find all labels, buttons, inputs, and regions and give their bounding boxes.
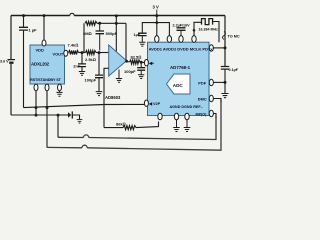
wire C2 to ground <box>81 67 83 72</box>
wire supply into opamp <box>115 23 117 51</box>
crystal Y1 16.384MHz <box>202 19 213 25</box>
wire node B down <box>98 53 100 75</box>
svg-text:3 V: 3 V <box>153 5 159 10</box>
wire MPO to bus1 <box>213 114 216 119</box>
capacitor C4 500pF <box>96 31 105 34</box>
wire U1 pin2 down <box>46 91 48 147</box>
IC U3 body <box>148 42 210 115</box>
node rail-opamp supply <box>115 14 118 17</box>
svg-text:2MΩ: 2MΩ <box>83 31 92 36</box>
ground C5 <box>139 42 145 46</box>
svg-text:VDD: VDD <box>36 47 45 52</box>
pin U3 VINP left <box>144 60 148 66</box>
wire feedback top <box>97 22 126 24</box>
svg-text:DMC: DMC <box>198 96 207 101</box>
pin U1 bottom 2 <box>45 84 49 91</box>
wire C5 to ground <box>141 36 143 42</box>
capacitor C2 2nF <box>78 64 86 67</box>
pin U3 REFN bottom <box>158 113 162 120</box>
svg-text:2.5kΩ: 2.5kΩ <box>85 57 96 62</box>
node feedback-C4 <box>98 22 101 25</box>
svg-text:ADC: ADC <box>173 83 184 88</box>
wire AVDD supply segment <box>142 23 169 36</box>
pin U3 MCLK <box>192 36 196 43</box>
pin U3 PDF right <box>209 79 213 85</box>
wire C8 stub <box>180 30 182 36</box>
wire VOUT to R1 <box>67 52 70 54</box>
capacitor C6 100pF <box>137 68 145 71</box>
node pin1-L2 <box>35 114 38 117</box>
svg-text:16.384 MHz: 16.384 MHz <box>199 27 219 31</box>
wire node A down <box>81 53 83 64</box>
wire left rail upper <box>10 16 12 60</box>
capacitor C5 1uF <box>138 33 147 35</box>
capacitor C8 2.2uF <box>177 28 186 31</box>
svg-text:3.6 V: 3.6 V <box>0 59 9 63</box>
wire rail to C1 <box>23 16 25 27</box>
wire DMC to bus2 <box>213 99 221 103</box>
wire crystal right into U3 <box>213 22 219 43</box>
pin U3 DMC right <box>209 95 213 101</box>
wire bus1 <box>58 136 84 138</box>
wire to R5 <box>104 127 123 129</box>
wire opamp output <box>126 60 130 63</box>
ground U2 vminus <box>118 70 120 79</box>
node rail-C1 <box>22 14 25 17</box>
capacitor C9 <box>221 67 229 70</box>
svg-text:RST/STANDBY ST: RST/STANDBY ST <box>30 78 62 82</box>
wire U1 pin3 down <box>59 91 61 92</box>
resistor R5 86k <box>123 126 136 130</box>
svg-text:MP(O): MP(O) <box>196 112 208 116</box>
svg-text:ADXL202: ADXL202 <box>31 62 50 67</box>
wire R2 to opamp <box>96 52 109 54</box>
wire C3 to ground <box>98 78 100 92</box>
ground C6 <box>138 75 144 79</box>
ground C2 <box>79 72 85 76</box>
svg-text:AD7768-1: AD7768-1 <box>170 65 191 70</box>
resistor R3 2M <box>85 21 97 25</box>
node supply-feedback <box>115 22 118 25</box>
svg-text:TO MC: TO MC <box>228 34 240 38</box>
capacitor C3 100pF <box>95 75 103 78</box>
wire C6 stub <box>140 62 142 67</box>
wire line L1 to U3 VINN <box>24 104 145 107</box>
svg-text:PDF: PDF <box>198 80 206 85</box>
wire L2 down to bus1 <box>57 115 59 137</box>
svg-text:86kΩ: 86kΩ <box>116 121 126 126</box>
wire rail to feedback top <box>115 16 117 24</box>
break mark TO MC <box>223 32 226 40</box>
pin U3 PDTx right <box>209 45 213 51</box>
pin U3 AVDD2 <box>167 36 171 43</box>
svg-text:100pF: 100pF <box>124 69 136 74</box>
pin U3 VINN left <box>144 100 148 106</box>
wire C1 down to line L1 <box>23 30 25 108</box>
wire line L2 <box>11 114 69 116</box>
pin U1 bottom 1 <box>34 84 38 91</box>
svg-text:100pF: 100pF <box>85 78 97 83</box>
wire L2 after C10 <box>73 115 80 119</box>
wire feedback left vertical <box>83 23 85 52</box>
wire C9 down <box>224 69 226 93</box>
wire R4 to U3 <box>140 61 145 64</box>
svg-text:AVDD1 AVDD2 DVDD MCLK PDTx: AVDD1 AVDD2 DVDD MCLK PDTx <box>149 46 214 51</box>
wire PDF to node <box>213 81 225 83</box>
node AVDD segment tap <box>155 21 158 24</box>
svg-text:0.1µF: 0.1µF <box>229 68 239 72</box>
wire R5 to U3 bottom pin <box>136 122 159 128</box>
resistor R2 2.5k <box>86 51 97 55</box>
wire PDTx to rail <box>213 47 225 49</box>
wire R1 to R2 <box>79 52 86 54</box>
wire top supply rail <box>11 15 70 17</box>
wire C6 to ground <box>140 70 142 74</box>
ground U3 AGND <box>176 120 178 127</box>
pin U1 VOUT right <box>64 50 68 56</box>
svg-text:82.5Ω: 82.5Ω <box>131 54 142 59</box>
svg-text:2nF: 2nF <box>73 64 81 69</box>
resistor R1 7.4k <box>69 51 79 55</box>
wire C4 stub up <box>99 23 101 30</box>
svg-text:◀+: ◀+ <box>148 62 155 66</box>
capacitor C10 series <box>68 112 71 117</box>
battery BT1 3.6V <box>8 59 16 61</box>
wire bus2 <box>47 146 82 148</box>
pin U1 bottom 3 <box>58 84 62 91</box>
wire left rail lower <box>10 64 12 115</box>
ground L2 end <box>77 120 83 123</box>
pin U3 AVDD1 <box>155 36 159 43</box>
wire right rail down <box>224 16 226 67</box>
op-amp U2 triangle <box>109 45 127 76</box>
IC U1 body <box>30 45 65 84</box>
wire rail to U1 VDD <box>43 16 45 42</box>
svg-text:VOUT: VOUT <box>53 52 64 57</box>
node B inv input <box>98 51 101 54</box>
ground C3 <box>96 92 103 96</box>
node crystal <box>193 29 196 32</box>
wire opamp noninv input <box>104 67 109 69</box>
wire feedback down to output <box>125 23 127 60</box>
ADC block inside U3 <box>167 74 191 94</box>
ground U1 pin3 <box>56 92 62 96</box>
svg-text:1µF: 1µF <box>134 33 141 37</box>
node rail-U1 <box>43 14 46 17</box>
pin U3 DVDD <box>179 36 183 43</box>
svg-text:7.4kΩ: 7.4kΩ <box>68 42 79 47</box>
pin U3 AGND bottom <box>174 113 178 120</box>
wire rail down to AVDD1 <box>156 16 158 36</box>
pin U3 MPO right <box>209 110 213 116</box>
ground right rail <box>222 94 229 98</box>
node A feedback tap <box>81 51 84 54</box>
ground U3 DGND <box>186 120 188 127</box>
node pin1-L1 <box>35 106 38 109</box>
capacitor C1 1uF <box>19 27 28 30</box>
node right PDF <box>224 81 227 84</box>
svg-text:AD8603: AD8603 <box>105 95 121 100</box>
pin U1 VDD top <box>42 40 46 46</box>
pin U3 DGND bottom <box>185 113 189 120</box>
node L2-bus <box>57 114 60 117</box>
svg-text:AGND DGND REF–: AGND DGND REF– <box>170 105 203 109</box>
wire noninv down <box>103 68 105 127</box>
node R4-C6 <box>140 61 143 64</box>
svg-text:1 µF: 1 µF <box>29 28 38 33</box>
node rail 3V tap <box>155 14 158 17</box>
node right rail PDTx <box>224 46 227 49</box>
svg-text:2.2µF/16V: 2.2µF/16V <box>173 24 191 28</box>
node opamp output <box>125 60 128 63</box>
resistor R4 82.5 <box>130 60 141 64</box>
svg-text:◀ V2P: ◀ V2P <box>148 102 161 106</box>
wire U1 pin1 down <box>35 91 37 115</box>
wire C4 stub down <box>99 34 101 51</box>
node pin2-L1 <box>46 106 49 109</box>
wire MCLK up <box>194 22 202 35</box>
